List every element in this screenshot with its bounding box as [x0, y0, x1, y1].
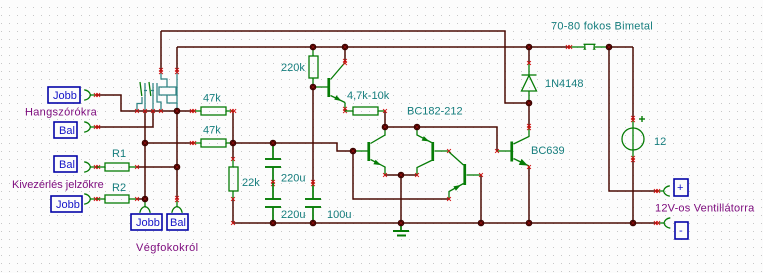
svg-text:220u: 220u [281, 173, 305, 185]
svg-text:R1: R1 [112, 148, 126, 160]
port plus arc [657, 186, 670, 196]
svg-text:Végfokokról: Végfokokról [136, 242, 199, 254]
port Jobb from amp (box) [131, 214, 162, 230]
transistor T1 BC182 (left) [353, 127, 385, 175]
svg-text:BC182-212: BC182-212 [407, 106, 463, 118]
port Bal from amp (box) [167, 214, 188, 230]
junction node 313,47 [310, 44, 317, 51]
ground [393, 223, 409, 236]
diode 1N4148 [522, 63, 537, 103]
junction node 177,111 [174, 108, 181, 115]
svg-text:1N4148: 1N4148 [545, 78, 584, 90]
wire 47k-1 down to 22k [232, 111, 234, 159]
wire top rail +12V from relay coil pin to diode column [161, 31, 529, 103]
junction node 633,223 [630, 220, 637, 227]
relay contact blades [140, 82, 151, 96]
svg-text:Bal: Bal [170, 217, 186, 229]
capacitor 100u [305, 183, 321, 223]
svg-text:+: + [677, 182, 683, 194]
svg-text:Bal: Bal [59, 125, 75, 137]
wire T3 base to bottom rail [480, 175, 482, 223]
wire 220k node down to 100u [312, 87, 314, 183]
capacitor 220u (upper) [265, 143, 281, 183]
bimetal switch [569, 44, 609, 49]
wire 12V source top column [632, 47, 634, 119]
wire diode top stub [528, 47, 530, 63]
wire 22k to bottom rail [232, 199, 234, 223]
wire R2 to node [137, 198, 145, 200]
resistor 22k [229, 159, 238, 199]
junction node 273,143 [270, 140, 277, 147]
port Jobb speaker (box) [48, 87, 80, 103]
wire Jobb speaker input to relay contact row [97, 95, 193, 111]
junction node 417,127 [414, 124, 421, 131]
svg-text:Jobb: Jobb [136, 217, 160, 229]
port Bal from amp arc [172, 200, 182, 213]
junction node 529,47 [526, 44, 533, 51]
port minus (box) [675, 222, 688, 239]
junction node 345,47 [342, 44, 349, 51]
svg-text:12V-os Ventillátorra: 12V-os Ventillátorra [655, 203, 755, 215]
svg-text:12: 12 [654, 136, 666, 148]
resistor R2 [97, 195, 137, 203]
wire bottom rail [233, 222, 657, 224]
junction node 401,223 [398, 220, 405, 227]
wire emitter row T1-T2 [385, 174, 417, 176]
svg-text:BC639: BC639 [531, 145, 565, 157]
port Jobb level (box) [51, 196, 82, 212]
port Bal level arc [84, 162, 97, 172]
wire node to 47k-2 [145, 142, 193, 144]
source 12V [622, 116, 645, 159]
svg-text:220k: 220k [281, 62, 305, 74]
wire 220k transistor collector to rail [344, 47, 346, 62]
svg-text:Hangszórókra: Hangszórókra [25, 107, 98, 119]
transistor T2 BC182 (middle) [417, 127, 449, 175]
wire R1 to common column [137, 166, 177, 168]
junction node 385,127 [382, 124, 389, 131]
relay contact pin marks [135, 109, 139, 113]
wire relay coil left pin drop [160, 31, 162, 71]
port minus arc [658, 218, 671, 228]
svg-text:4,7k-10k: 4,7k-10k [347, 90, 390, 102]
wire from bimetal switch to 12V source column [609, 46, 633, 48]
relay K1 contacts [137, 83, 161, 111]
wire diode node to BC639 collector [528, 103, 530, 127]
svg-text:70-80 fokos Bimetal: 70-80 fokos Bimetal [551, 21, 653, 33]
port Jobb speaker arc [84, 90, 97, 100]
resistor 4,7k-10k [345, 107, 385, 115]
resistor 47k (top) [193, 107, 233, 115]
port Bal speaker arc [84, 122, 97, 132]
wire 12V source bottom column [632, 159, 634, 223]
transistor T3 (feedback) [449, 152, 481, 199]
wire emitter node to ground [400, 175, 402, 223]
junction node 273,223 [270, 220, 277, 227]
capacitor 220u (lower) [265, 183, 281, 223]
svg-text:Jobb: Jobb [56, 199, 80, 211]
resistor 220k [309, 47, 318, 87]
wire down from switch node to plus port [609, 47, 657, 191]
junction node 609,47 [606, 44, 613, 51]
junction node 313,223 [310, 220, 317, 227]
relay K1 coil [159, 71, 177, 110]
transistor Q4 BC639 [497, 127, 529, 166]
junction node 145,199 [142, 196, 149, 203]
wire T1 base node down to T3 emitter [353, 151, 449, 199]
wire second rail y=47 to bimetal switch [177, 46, 569, 48]
port Jobb from amp arc [140, 200, 150, 213]
wire relay common column down to Bal port [176, 111, 178, 199]
port Bal level (box) [54, 156, 77, 172]
svg-text:220u: 220u [281, 209, 305, 221]
resistor R1 [97, 163, 137, 171]
wire node row to BC639 base [385, 127, 497, 151]
junction node 353,151 [350, 148, 357, 155]
wire relay pin2 column down to 47k node [144, 111, 146, 199]
svg-text:47k: 47k [203, 125, 221, 137]
wire 4,7k-10k to node [384, 111, 386, 127]
svg-text:Jobb: Jobb [53, 90, 77, 102]
svg-text:-: - [679, 225, 683, 237]
svg-text:R2: R2 [112, 182, 126, 194]
relay coil pin marks [159, 68, 163, 74]
svg-text:Bal: Bal [59, 159, 75, 171]
junction node 145,143 [142, 140, 149, 147]
wire BC639 emitter to bottom rail [528, 167, 530, 223]
junction node 233,143 [230, 140, 237, 147]
transistor Q1 (220k stage) [313, 63, 345, 112]
port Jobb level arc [84, 194, 97, 204]
wire Bal speaker input up to contact row [97, 111, 153, 127]
port Bal speaker (box) [54, 122, 77, 138]
port plus (box) [674, 179, 688, 196]
svg-text:47k: 47k [203, 93, 221, 105]
junction node 313,87 [310, 84, 317, 91]
svg-text:100u: 100u [327, 209, 351, 221]
junction node 529,103 [526, 100, 533, 107]
wire 47k-2 to T1 base [233, 143, 353, 151]
svg-text:Kivezérlés jelzőkre: Kivezérlés jelzőkre [12, 179, 104, 191]
junction node 529,223 [526, 220, 533, 227]
resistor 47k (second) [193, 139, 233, 147]
junction node 177,167 [174, 164, 181, 171]
junction node 481,223 [478, 220, 485, 227]
wire relay coil right pin drop [176, 47, 178, 71]
svg-text:22k: 22k [242, 177, 260, 189]
junction node 401,175 [398, 172, 405, 179]
